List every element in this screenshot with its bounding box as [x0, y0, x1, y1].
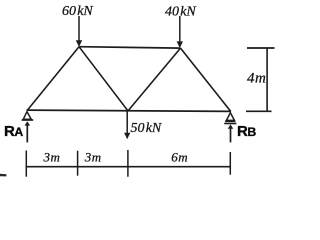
member bottom chord (support A to support B)	[27, 110, 232, 111]
reaction RA arrow	[25, 121, 31, 142]
svg-text:RA: RA	[4, 123, 23, 140]
member left end diagonal	[27, 47, 79, 111]
member diagonal top-left node to bottom-center node	[79, 47, 128, 111]
right support ground line	[224, 123, 236, 125]
member top chord	[79, 47, 181, 48]
svg-text:3m: 3m	[84, 150, 101, 165]
support A pin triangle	[23, 112, 31, 120]
member diagonal bottom-center node to top-right node	[128, 48, 181, 111]
dim tick 3m	[77, 151, 79, 176]
load 50kN arrow	[124, 112, 130, 140]
dim tick right	[229, 152, 231, 175]
dimension baseline horizontal	[26, 166, 230, 168]
left support base line	[22, 119, 34, 121]
svg-text:40kN: 40kN	[165, 5, 196, 20]
dimension 4m top tick	[247, 47, 275, 49]
reaction RB arrow	[228, 124, 234, 142]
stray ink mark bottom-left	[0, 174, 7, 177]
support B pin triangle	[226, 113, 234, 121]
right support base line	[225, 120, 235, 122]
svg-text:4m: 4m	[247, 71, 266, 87]
dimension 4m bottom tick	[246, 110, 272, 112]
svg-text:60kN: 60kN	[62, 4, 93, 19]
load 40kN arrow	[177, 16, 183, 48]
load 60kN arrow	[76, 16, 82, 47]
svg-text:RB: RB	[237, 123, 256, 140]
dim tick center	[127, 150, 129, 177]
svg-text:50kN: 50kN	[131, 121, 162, 136]
dim tick left	[25, 151, 27, 177]
svg-text:6m: 6m	[171, 149, 187, 164]
svg-text:3m: 3m	[43, 150, 60, 165]
member right end diagonal	[181, 48, 231, 111]
dimension 4m vertical line	[266, 48, 268, 112]
